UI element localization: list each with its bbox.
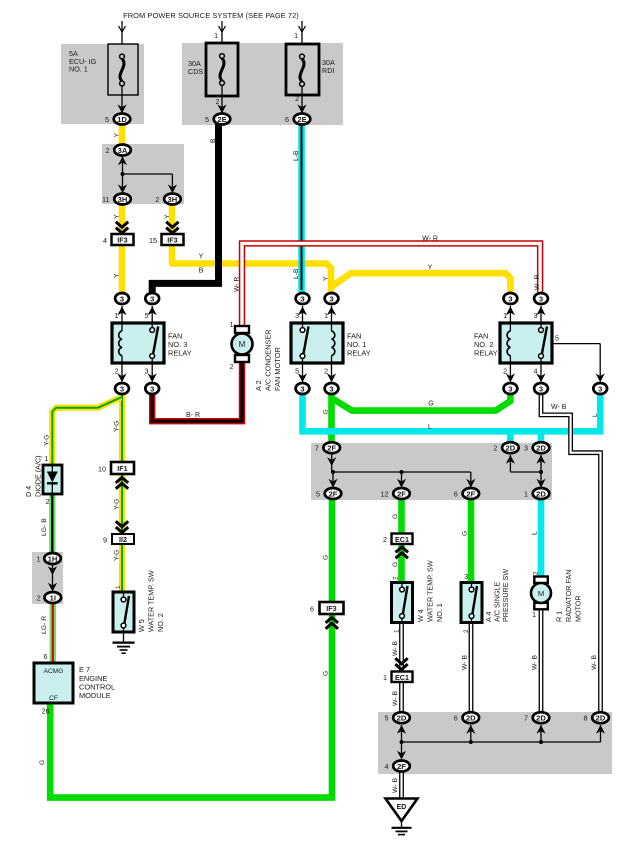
- pin 2 A4: [463, 629, 470, 633]
- wire W-R a/c fan motor pin 1 to fan no.2 relay pin 3: [242, 243, 540, 330]
- label L right vertical: [592, 413, 599, 417]
- svg-text:Y-G: Y-G: [44, 435, 51, 446]
- label Y right run: [428, 265, 433, 272]
- svg-text:1H: 1H: [48, 554, 58, 563]
- svg-text:3: 3: [120, 294, 124, 303]
- svg-text:B: B: [210, 138, 217, 143]
- wire L-B fuse 2E to fan no.1 relay pin 3: [298, 123, 305, 292]
- connector 4 2F: [385, 761, 410, 772]
- junction 3-2D to 1-2D and 2-2D: [506, 455, 546, 488]
- svg-text:6: 6: [454, 714, 458, 723]
- svg-text:1: 1: [524, 490, 528, 499]
- svg-text:L: L: [592, 413, 599, 417]
- svg-text:CDS: CDS: [188, 67, 203, 76]
- pin 1 motor R1: [532, 612, 536, 619]
- svg-text:Y-G: Y-G: [114, 550, 121, 561]
- label Y below 1D: [114, 133, 121, 138]
- connector oval 3 at 122,298.5: [115, 293, 129, 304]
- label G left run upper: [323, 555, 330, 560]
- svg-text:2D: 2D: [596, 714, 606, 723]
- svg-text:6: 6: [44, 654, 48, 661]
- label A4 A/C SINGLE PRESSURE SW: [484, 569, 510, 622]
- svg-text:G: G: [428, 401, 433, 408]
- svg-text:6: 6: [310, 605, 314, 614]
- connector oval 3 at 541,298.5: [534, 293, 548, 304]
- connector 15 IF3: [149, 222, 184, 245]
- svg-text:11: 11: [102, 195, 109, 204]
- svg-text:3: 3: [539, 384, 543, 393]
- label W4 WATER TEMP SW NO.1: [416, 560, 444, 622]
- label G 12-2F lower: [392, 562, 399, 567]
- svg-text:1: 1: [294, 33, 298, 40]
- junction 5/6/7/8-2D to 4-2F: [397, 725, 605, 760]
- svg-text:2E: 2E: [297, 115, 306, 124]
- relay FAN NO.1 (switch pins 3-5, coil pins 1-2): [291, 323, 343, 363]
- svg-text:G: G: [323, 555, 330, 560]
- svg-text:3H: 3H: [168, 195, 178, 204]
- pin 1 relay3: [115, 313, 119, 320]
- svg-text:2: 2: [230, 364, 234, 371]
- relay FAN NO.2 (coil pins 1-2, switch pins 3-4-5): [500, 323, 552, 363]
- svg-text:RDI: RDI: [322, 66, 334, 75]
- svg-text:W- B: W- B: [462, 655, 469, 670]
- svg-text:RELAY: RELAY: [168, 349, 192, 358]
- svg-text:RELAY: RELAY: [474, 349, 498, 358]
- wire W-B connector 4-2F to ground ED: [399, 771, 404, 798]
- pin 2 motor R1: [533, 571, 540, 575]
- svg-text:M: M: [239, 340, 246, 349]
- junction 3A to 3H distribution: [118, 156, 177, 193]
- svg-text:1: 1: [394, 629, 401, 633]
- label Y-G col lower: [114, 550, 121, 561]
- svg-text:1: 1: [45, 456, 49, 463]
- svg-text:4: 4: [385, 762, 389, 771]
- connector 6 2E: [285, 114, 310, 125]
- label G near ECM: [39, 760, 46, 765]
- pin 2 motor A2: [230, 364, 234, 371]
- label Y below 11-3H: [114, 214, 121, 219]
- connector 2 EC1: [383, 534, 413, 559]
- switch A4 a/c single pressure: [461, 583, 482, 623]
- svg-text:IF3: IF3: [117, 236, 127, 245]
- svg-text:Y: Y: [322, 276, 329, 281]
- wire G connector 12-2F to water temp sw no.1: [398, 499, 405, 583]
- pin 1 diode: [45, 456, 49, 463]
- svg-text:DIODE (A/C): DIODE (A/C): [34, 455, 43, 497]
- connector 1 2D: [524, 488, 549, 499]
- svg-text:D 4: D 4: [24, 486, 33, 497]
- svg-text:5: 5: [555, 336, 559, 343]
- label W5 WATER TEMP SW NO.2: [137, 570, 165, 632]
- svg-text:NO. 1: NO. 1: [435, 603, 444, 622]
- svg-text:6: 6: [454, 490, 458, 499]
- svg-text:FAN MOTOR: FAN MOTOR: [273, 347, 282, 391]
- label fuse 5A ECU-IG NO.1: [69, 49, 97, 74]
- wire relay bottom lead x=510.4: [506, 363, 515, 382]
- svg-text:Y: Y: [199, 254, 204, 261]
- svg-text:3: 3: [598, 384, 602, 393]
- label Y left column: [114, 273, 121, 278]
- junction block gray box (connectors 2D bottom): [378, 712, 612, 774]
- connector 10 IF1: [98, 462, 134, 489]
- diode D4 (A/C): [43, 465, 62, 494]
- junction block gray box (CDS and RDI fuses): [182, 43, 343, 125]
- svg-text:3: 3: [508, 384, 512, 393]
- svg-text:EC1: EC1: [395, 673, 409, 682]
- svg-text:G: G: [392, 562, 399, 567]
- svg-text:3: 3: [120, 384, 124, 393]
- svg-text:L-B: L-B: [293, 150, 300, 161]
- wire G connector 6-2F to a/c single pressure sw: [468, 499, 475, 583]
- svg-text:26: 26: [42, 709, 50, 716]
- svg-text:W- B: W- B: [392, 641, 399, 656]
- svg-text:3: 3: [508, 294, 512, 303]
- connector oval 3 at 541,388.5: [534, 383, 548, 394]
- pin 3 relay1: [295, 313, 299, 320]
- wire LG-R connector 1I to engine control module pin 6: [50, 602, 56, 663]
- label Y-G diode branch: [44, 435, 51, 446]
- svg-text:6: 6: [285, 115, 289, 124]
- pin 5 relay1: [295, 369, 299, 376]
- wire relay bottom lead x=302.5: [298, 363, 307, 382]
- label fuse 30A CDS: [188, 59, 203, 76]
- svg-text:G: G: [392, 514, 399, 519]
- svg-text:2: 2: [155, 195, 159, 204]
- svg-text:4: 4: [103, 236, 107, 245]
- junction block gray box (ECU-IG fuse): [61, 44, 144, 124]
- label W-B w4 upper: [392, 641, 399, 656]
- svg-text:WATER TEMP. SW: WATER TEMP. SW: [147, 570, 156, 632]
- label Y horizontal run: [199, 254, 204, 261]
- svg-text:3H: 3H: [118, 195, 128, 204]
- pin 1 W5: [115, 585, 122, 589]
- wire feed from power source at x=122: [119, 21, 126, 44]
- svg-text:3: 3: [300, 384, 304, 393]
- label E7 ENGINE CONTROL MODULE: [79, 665, 115, 700]
- svg-text:2: 2: [295, 96, 299, 103]
- junction 7-2F to 5/12/6-2F distribution: [327, 454, 475, 488]
- svg-text:3: 3: [150, 294, 154, 303]
- label FAN NO.2 RELAY: [474, 332, 498, 358]
- connector 11 3H: [102, 194, 131, 205]
- pin 4 relay2: [534, 369, 538, 376]
- svg-text:3: 3: [300, 294, 304, 303]
- label G 12-2F upper: [392, 514, 399, 519]
- svg-text:2D: 2D: [536, 714, 546, 723]
- label G at relay1 pin2: [323, 409, 330, 414]
- connector oval 3 at 122,388.5: [115, 383, 129, 394]
- svg-text:3: 3: [534, 313, 538, 320]
- svg-text:5: 5: [316, 490, 320, 499]
- wire G link fan no.1 relay pin 2 to fan no.2 relay pin 2: [332, 394, 511, 411]
- label W-B w4 lower: [392, 691, 399, 706]
- svg-text:3: 3: [295, 313, 299, 320]
- label pin 2 fuse RDI: [295, 96, 299, 103]
- svg-text:L-B: L-B: [293, 268, 300, 279]
- connector 5 2D: [385, 712, 410, 723]
- svg-text:B- R: B- R: [186, 412, 200, 419]
- label G 6-2F: [462, 531, 469, 536]
- svg-text:5: 5: [385, 714, 389, 723]
- svg-text:2E: 2E: [217, 115, 226, 124]
- label Y-G col upper: [114, 421, 121, 432]
- label B-R horizontal: [186, 412, 200, 419]
- connector 7 2F: [315, 442, 340, 453]
- label FAN NO.3 RELAY: [168, 332, 192, 358]
- svg-text:ACMG: ACMG: [44, 668, 64, 675]
- ground symbol at ED: [392, 828, 412, 835]
- svg-text:2: 2: [383, 535, 387, 544]
- title text: [123, 11, 299, 20]
- svg-text:Y: Y: [164, 214, 171, 219]
- svg-text:2: 2: [46, 499, 50, 506]
- svg-text:5: 5: [205, 115, 209, 124]
- wire fuse lead to connector oval x=122: [117, 86, 126, 113]
- label R1 RADIATOR FAN MOTOR: [555, 570, 583, 622]
- svg-text:M: M: [538, 589, 544, 598]
- wire fan no.2 relay pin 5 to connector oval: [552, 344, 605, 383]
- svg-text:1: 1: [115, 585, 122, 589]
- svg-text:Y-G: Y-G: [114, 421, 121, 432]
- svg-text:2F: 2F: [397, 762, 406, 771]
- connector oval 3 at 510.4,388.5: [504, 383, 518, 394]
- svg-text:W- B: W- B: [532, 655, 539, 670]
- wire relay bottom lead x=152.2: [148, 363, 157, 382]
- label W-B to ED: [392, 778, 399, 793]
- svg-text:9: 9: [103, 536, 107, 545]
- pin 1 motor A2: [230, 322, 234, 329]
- motor A2 A/C condenser fan: [232, 326, 253, 362]
- svg-text:1I: 1I: [50, 593, 56, 602]
- wire relay top lead x=302.5: [298, 306, 307, 323]
- wire W-B fan no.2 relay pin 4 to connector 8-2D: [541, 394, 601, 713]
- svg-text:B: B: [199, 268, 204, 275]
- svg-text:IF3: IF3: [167, 236, 177, 245]
- pin 5 relay3: [145, 313, 149, 320]
- label Y below 2-3H: [164, 214, 171, 219]
- svg-text:2: 2: [393, 576, 400, 580]
- ground at W5: [113, 643, 135, 654]
- pin 26 ECM: [42, 709, 50, 716]
- ground lead ED: [401, 820, 403, 827]
- connector oval 3 at 302.5,298.5: [296, 293, 310, 304]
- svg-text:L: L: [532, 531, 539, 535]
- svg-text:LG- R: LG- R: [41, 616, 48, 634]
- svg-text:2: 2: [106, 146, 110, 155]
- svg-text:PRESSURE SW: PRESSURE SW: [501, 569, 510, 622]
- svg-text:1: 1: [532, 612, 536, 619]
- svg-text:FROM POWER SOURCE SYSTEM (SEE: FROM POWER SOURCE SYSTEM (SEE PAGE 72): [123, 11, 299, 20]
- label A2 A/C CONDENSER FAN MOTOR: [254, 329, 282, 391]
- pin 3 relay2: [534, 313, 538, 320]
- connector 6 IF3: [310, 602, 344, 629]
- motor R1 radiator fan: [531, 577, 551, 610]
- ground lead water temp sw no.2: [123, 632, 125, 642]
- svg-text:W- R: W- R: [234, 277, 241, 292]
- svg-text:1: 1: [324, 313, 328, 320]
- connector 2 3A: [106, 145, 131, 156]
- svg-text:Y: Y: [114, 273, 121, 278]
- pin 1 W4: [394, 629, 401, 633]
- wire relay bottom lead x=541: [536, 363, 545, 382]
- svg-text:W- R: W- R: [534, 275, 541, 290]
- svg-text:W- R: W- R: [422, 236, 438, 243]
- wire relay top lead x=331.5: [327, 306, 336, 323]
- wire G connector 5-2F down and around to ECM pin 26: [50, 499, 332, 798]
- svg-text:G: G: [39, 760, 46, 765]
- label W-B r1: [532, 655, 539, 670]
- svg-text:W- B: W- B: [591, 655, 598, 670]
- label W-B right: [591, 655, 598, 670]
- wire relay top lead x=122: [117, 306, 126, 323]
- junction 1H to 1I: [48, 565, 57, 592]
- wire Y fuse 1D to connector 3A: [119, 124, 126, 145]
- switch W4 water temp no.1: [392, 583, 413, 623]
- label Y-G col mid: [114, 499, 121, 510]
- pin 2 relay3: [115, 369, 119, 376]
- svg-text:3A: 3A: [118, 146, 128, 155]
- label W-R vertical left: [234, 277, 241, 292]
- connector 7 2D: [524, 712, 549, 723]
- svg-text:Y: Y: [114, 214, 121, 219]
- connector 12 2F: [381, 488, 410, 499]
- svg-text:1: 1: [214, 33, 218, 40]
- label pin 2 fuse CDS: [216, 99, 220, 106]
- relay FAN NO.3 (coil pins 1-2, switch pins 5-3): [112, 323, 164, 363]
- connector 2 1I: [37, 592, 61, 603]
- label L-B top: [293, 150, 300, 161]
- wire W-B a/c single pressure sw to connector 6-2D: [469, 622, 474, 713]
- pin 2 W4: [393, 576, 400, 580]
- svg-text:5: 5: [105, 115, 109, 124]
- svg-text:2F: 2F: [327, 444, 336, 453]
- svg-text:W 5: W 5: [137, 619, 146, 632]
- svg-text:LG- B: LG- B: [41, 518, 48, 536]
- svg-text:RELAY: RELAY: [347, 349, 371, 358]
- wire relay top lead x=510.4: [506, 306, 515, 323]
- connector 3 2D: [524, 442, 549, 453]
- pin 1 relay1: [324, 313, 328, 320]
- wire LG-B diode D4 to connector 1H: [49, 493, 55, 554]
- label L-B lower: [293, 268, 300, 279]
- svg-text:L: L: [428, 424, 432, 431]
- fuse 30A RDI: [286, 44, 319, 95]
- svg-text:CF: CF: [49, 695, 58, 702]
- pin 2 relay1: [324, 369, 328, 376]
- connector 1 1H: [37, 553, 61, 564]
- wire B-R fan no.3 relay pin 3 to a/c fan motor pin 2: [152, 356, 242, 421]
- connector oval 3 at 302.5,388.5: [296, 383, 310, 394]
- svg-text:3: 3: [145, 369, 149, 376]
- svg-text:3: 3: [539, 294, 543, 303]
- junction block gray box (connectors 2F/2D mid): [311, 443, 552, 500]
- svg-text:Y-G: Y-G: [114, 499, 121, 510]
- svg-text:2: 2: [463, 629, 470, 633]
- wire feed from power source at x=302: [294, 21, 305, 44]
- label FAN NO.1 RELAY: [347, 332, 371, 358]
- svg-text:2: 2: [37, 594, 41, 603]
- svg-text:WATER TEMP. SW: WATER TEMP. SW: [426, 560, 435, 622]
- svg-text:3: 3: [329, 294, 333, 303]
- label B near fuse: [210, 138, 217, 143]
- svg-text:2: 2: [503, 369, 507, 376]
- svg-text:3: 3: [329, 384, 333, 393]
- svg-text:2D: 2D: [536, 444, 546, 453]
- pin 2 relay2: [503, 369, 507, 376]
- svg-text:1: 1: [230, 322, 234, 329]
- ground point ED: [386, 799, 418, 822]
- svg-text:2: 2: [324, 369, 328, 376]
- label LG-R: [41, 616, 48, 634]
- svg-text:E 7: E 7: [79, 665, 90, 674]
- wire relay top lead x=541: [536, 306, 545, 323]
- fuse 30A CDS: [206, 43, 238, 96]
- label G left run lower: [323, 671, 330, 676]
- label L horizontal: [428, 424, 432, 431]
- connector oval 3 at 331.5,388.5: [325, 383, 339, 394]
- svg-text:4: 4: [534, 369, 538, 376]
- svg-text:2: 2: [533, 571, 540, 575]
- junction block gray box (connectors 1H/1I): [32, 552, 63, 604]
- engine control module E7: [34, 663, 73, 703]
- pin 6 ECM: [44, 654, 48, 661]
- label fuse 30A RDI: [322, 58, 335, 75]
- svg-text:RADIATOR FAN: RADIATOR FAN: [564, 570, 573, 622]
- svg-text:7: 7: [315, 444, 319, 453]
- svg-text:3: 3: [464, 574, 468, 581]
- connector 4 IF3: [103, 222, 134, 245]
- connector oval 3 at 331.5,298.5: [325, 293, 339, 304]
- svg-text:1: 1: [383, 673, 387, 682]
- wire relay bottom lead x=331.5: [327, 363, 336, 382]
- svg-text:2D: 2D: [397, 714, 407, 723]
- svg-text:7: 7: [524, 714, 528, 723]
- svg-text:W- B: W- B: [392, 691, 399, 706]
- svg-text:R 1: R 1: [555, 611, 564, 622]
- svg-text:5: 5: [295, 369, 299, 376]
- connector 5 2F: [316, 488, 341, 499]
- svg-text:W- B: W- B: [551, 404, 567, 411]
- label W-B a4: [462, 655, 469, 670]
- pin 3 A4: [464, 574, 468, 581]
- label W-R horizontal: [422, 236, 438, 243]
- label B horizontal: [199, 268, 204, 275]
- wire fuse lead to connector oval x=302: [297, 86, 306, 113]
- svg-text:1: 1: [37, 555, 41, 564]
- connector 5 1D: [105, 114, 130, 125]
- switch W5 water temp no.2: [113, 592, 134, 632]
- wire W-B radiator fan motor to connector 7-2D: [539, 608, 544, 713]
- wire relay bottom lead x=122: [117, 363, 126, 382]
- wire Y connectors 3H to IF3 to relays: [122, 204, 510, 293]
- label G horizontal: [428, 401, 433, 408]
- label LG-B: [41, 518, 48, 536]
- svg-text:IF1: IF1: [117, 464, 127, 473]
- junction block gray box (connectors 3A/3H): [102, 144, 184, 204]
- svg-text:8: 8: [584, 714, 588, 723]
- connector 5 2E: [205, 114, 230, 125]
- label Y at relay1 pin1: [322, 276, 329, 281]
- wire fuse lead to connector oval x=222: [217, 86, 226, 113]
- wire feed from power source at x=222: [214, 21, 225, 44]
- svg-text:W 4: W 4: [416, 609, 425, 622]
- svg-text:Y: Y: [114, 133, 121, 138]
- svg-text:IF3: IF3: [326, 604, 336, 613]
- svg-text:1D: 1D: [117, 115, 127, 124]
- svg-text:2D: 2D: [466, 714, 476, 723]
- connector 2 3H: [155, 194, 180, 205]
- pin 5 relay2: [555, 336, 559, 343]
